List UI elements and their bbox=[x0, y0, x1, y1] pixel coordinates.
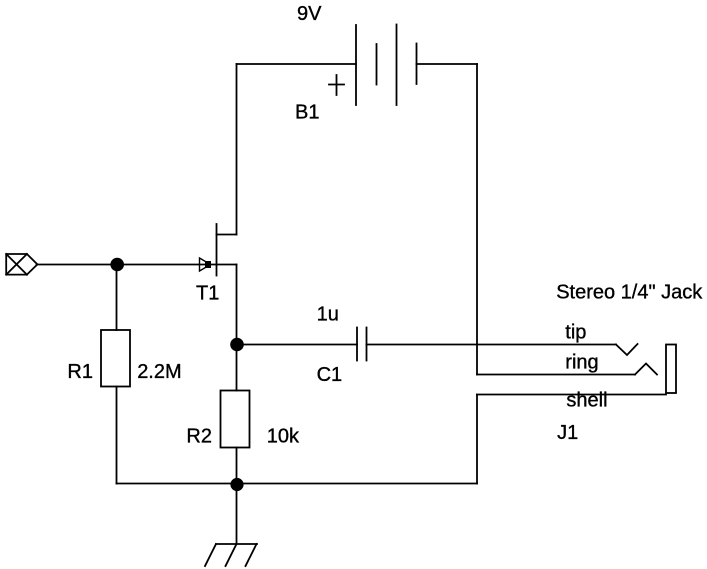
ground bbox=[205, 544, 257, 566]
svg-text:J1: J1 bbox=[557, 422, 578, 444]
wire ground rail bbox=[117, 483, 478, 485]
wire shell horizontal bbox=[477, 394, 666, 396]
transistor T1 bbox=[200, 224, 237, 276]
input port connector bbox=[6, 254, 37, 275]
svg-text:Stereo 1/4" Jack: Stereo 1/4" Jack bbox=[556, 282, 703, 304]
svg-text:10k: 10k bbox=[267, 426, 300, 448]
wire node down to R1 bbox=[116, 265, 118, 331]
svg-text:ring: ring bbox=[565, 352, 598, 374]
wire capacitor to tip bbox=[367, 344, 617, 346]
wire R2 to ground rail bbox=[236, 448, 238, 484]
battery B1 bbox=[329, 25, 417, 106]
svg-text:T1: T1 bbox=[196, 283, 219, 305]
capacitor C1 bbox=[357, 328, 367, 361]
wire node to capacitor bbox=[237, 344, 358, 346]
node source junction bbox=[230, 338, 244, 352]
svg-text:B1: B1 bbox=[295, 102, 319, 124]
wire battery to right rail bbox=[417, 63, 478, 65]
svg-text:2.2M: 2.2M bbox=[137, 361, 181, 383]
resistor R2 bbox=[221, 391, 250, 448]
wire R1 to ground rail bbox=[116, 387, 118, 484]
jack barrel bbox=[666, 345, 676, 394]
svg-text:R2: R2 bbox=[186, 426, 212, 448]
resistor R1 bbox=[101, 330, 130, 387]
svg-text:1u: 1u bbox=[317, 304, 339, 326]
wire top rail to battery bbox=[237, 63, 357, 65]
node gate junction bbox=[110, 258, 124, 272]
wire ring horizontal bbox=[477, 374, 635, 376]
wire shell down to ground rail bbox=[476, 395, 478, 484]
node ground junction bbox=[230, 478, 243, 491]
wire ground stem bbox=[236, 484, 238, 545]
svg-text:tip: tip bbox=[565, 322, 586, 344]
svg-text:9V: 9V bbox=[297, 3, 322, 25]
wire node down to R2 bbox=[236, 345, 238, 391]
svg-text:C1: C1 bbox=[317, 364, 343, 386]
svg-text:R1: R1 bbox=[67, 361, 93, 383]
jack tip contact bbox=[616, 344, 638, 355]
wire T1 source down bbox=[236, 265, 238, 345]
wire right rail down to ring bbox=[476, 64, 478, 375]
wire input to gate bbox=[37, 264, 217, 266]
svg-text:shell: shell bbox=[566, 390, 607, 412]
jack ring contact bbox=[635, 364, 657, 375]
wire T1 drain up bbox=[236, 64, 238, 235]
